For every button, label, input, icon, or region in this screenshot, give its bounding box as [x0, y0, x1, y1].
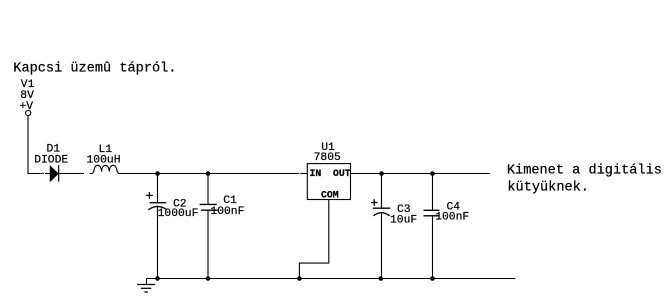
node: junction C2 bottom: [155, 276, 160, 281]
wire: small segment to diode anode: [45, 173, 50, 175]
node: junction C3 bottom: [379, 276, 384, 281]
svg-text:COM: COM: [321, 189, 339, 200]
terminal V1: [26, 110, 31, 115]
capacitor C3 (polarized): [371, 174, 391, 279]
svg-text:10uF: 10uF: [390, 214, 417, 226]
capacitor C2 (polarized): [146, 174, 167, 279]
svg-text:100uH: 100uH: [87, 154, 121, 166]
wire: inductor to U1 IN: [119, 173, 300, 175]
svg-text:100nF: 100nF: [435, 212, 469, 224]
wire: diode to inductor: [59, 173, 84, 175]
svg-text:OUT: OUT: [333, 168, 351, 179]
node: junction C1 bottom: [206, 276, 211, 281]
wire: U1 OUT to output: [351, 173, 490, 175]
wire: ground rail: [147, 278, 516, 280]
svg-text:100nF: 100nF: [210, 206, 244, 218]
svg-text:DIODE: DIODE: [34, 154, 68, 166]
svg-text:kütyüknek.: kütyüknek.: [507, 181, 589, 196]
node: junction C4 top: [430, 171, 435, 176]
svg-text:7805: 7805: [314, 152, 341, 164]
capacitor C4: [424, 174, 440, 279]
wire: stub into IN pin: [300, 173, 307, 175]
ground: [137, 279, 155, 293]
svg-text:IN: IN: [310, 168, 322, 179]
node: junction C2 top: [155, 171, 160, 176]
svg-text:1000uF: 1000uF: [158, 208, 199, 220]
diode D1: [50, 165, 59, 181]
node: junction COM bottom: [297, 276, 302, 281]
inductor L1: [93, 165, 119, 173]
svg-text:Kimenet a digitális: Kimenet a digitális: [507, 164, 662, 179]
node: junction C3 top: [379, 171, 384, 176]
node: junction C4 bottom: [430, 276, 435, 281]
node: junction C1 top: [206, 171, 211, 176]
wire: V1 terminal down and corner to diode: [28, 116, 44, 174]
svg-text:Kapcsi üzemû tápról.: Kapcsi üzemû tápról.: [13, 61, 176, 76]
op-amp U1 box (7805 regulator): [307, 164, 350, 200]
capacitor C1: [200, 174, 219, 279]
wire: U1 COM to ground rail: [299, 200, 328, 279]
